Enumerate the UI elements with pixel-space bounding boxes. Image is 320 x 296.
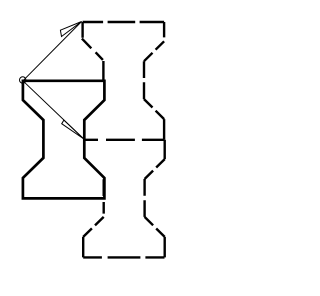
arrow 1 shaft (to upper copy corner) (23, 22, 82, 81)
dashed copy A (upper destination outline) (82, 22, 164, 140)
arrow 1 open head (60, 22, 81, 37)
arrow 2 shaft (to lower copy corner) (23, 81, 84, 139)
dashed copy B (lower destination outline) (83, 140, 165, 258)
base point circle (20, 77, 26, 83)
arrow 2 open head (62, 120, 84, 139)
shared middle dashed edge (84, 139, 165, 141)
solid source profile (23, 81, 105, 199)
